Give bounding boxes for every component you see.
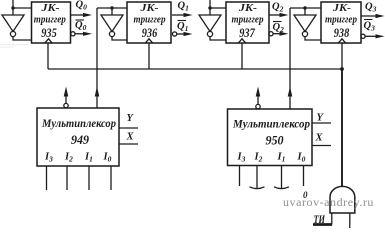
svg-text:Мультиплексор: Мультиплексор (232, 119, 310, 131)
svg-text:X: X (315, 133, 324, 144)
svg-text:Y: Y (317, 113, 325, 124)
svg-text:Мультиплексор: Мультиплексор (41, 118, 116, 130)
svg-text:ТИ: ТИ (314, 212, 326, 226)
svg-text:935: 935 (41, 25, 57, 40)
svg-text:950: 950 (266, 132, 284, 147)
svg-text:I0: I0 (297, 152, 306, 164)
svg-text:триггер: триггер (232, 14, 264, 26)
svg-text:Q0: Q0 (76, 0, 88, 12)
svg-text:I2: I2 (64, 152, 73, 164)
svg-text:I1: I1 (277, 152, 286, 164)
svg-text:Y: Y (127, 113, 135, 124)
svg-text:Q0: Q0 (75, 20, 87, 32)
svg-text:936: 936 (142, 25, 158, 40)
svg-text:JK-: JK- (40, 2, 59, 14)
svg-text:триггер: триггер (34, 14, 66, 26)
svg-text:JK-: JK- (238, 2, 257, 14)
svg-text:I2: I2 (254, 152, 263, 164)
svg-text:I0: I0 (103, 152, 112, 164)
svg-text:I3: I3 (237, 152, 246, 164)
svg-text:триггер: триггер (325, 14, 357, 26)
svg-text:I1: I1 (84, 152, 93, 164)
svg-text:Q3: Q3 (365, 2, 377, 14)
svg-text:uvarov-andrey.ru: uvarov-andrey.ru (283, 195, 374, 209)
svg-text:Q3: Q3 (364, 21, 376, 33)
svg-text:Q2: Q2 (273, 22, 285, 34)
svg-text:Q1: Q1 (178, 1, 189, 13)
svg-text:937: 937 (239, 25, 255, 40)
svg-text:938: 938 (334, 25, 350, 40)
svg-text:Q2: Q2 (272, 2, 284, 14)
svg-text:JK-: JK- (139, 2, 158, 14)
svg-text:триггер: триггер (134, 14, 166, 26)
svg-text:JK-: JK- (332, 2, 351, 14)
svg-text:949: 949 (71, 132, 89, 147)
svg-text:Q1: Q1 (177, 21, 188, 33)
svg-text:I3: I3 (44, 152, 53, 164)
svg-text:X: X (126, 132, 135, 143)
